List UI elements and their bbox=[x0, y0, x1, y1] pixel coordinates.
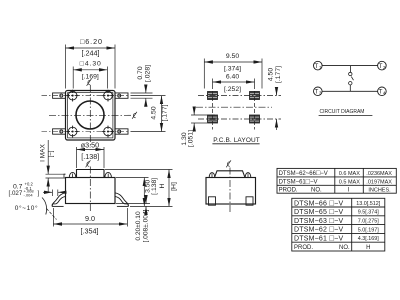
svg-text:-.004: -.004 bbox=[24, 193, 34, 198]
lid tab left bbox=[64, 174, 66, 177]
label 0.7 tol bbox=[13, 182, 33, 191]
dim 4.50 line (top view) bbox=[161, 96, 163, 132]
switch stub bottom bbox=[349, 85, 351, 91]
svg-text:DTSM−66 □−V: DTSM−66 □−V bbox=[294, 198, 343, 207]
svg-text:H: H bbox=[366, 245, 370, 251]
svg-text:PROD.: PROD. bbox=[294, 245, 313, 251]
CIRCUIT DIAGRAM underline bbox=[319, 114, 373, 116]
table2 column line bbox=[351, 198, 353, 251]
pad bottom-left bbox=[208, 115, 218, 123]
svg-text:4.3[.169]: 4.3[.169] bbox=[358, 236, 379, 242]
angle reference line bbox=[47, 209, 57, 220]
svg-text:4.50: 4.50 bbox=[268, 68, 275, 81]
svg-text:0.6 MAX: 0.6 MAX bbox=[339, 171, 360, 177]
svg-text:NO.: NO. bbox=[311, 188, 322, 194]
table1 row lines bbox=[277, 176, 396, 178]
dim 1.30 ext lines bbox=[191, 114, 215, 116]
terminal row centerline top bbox=[42, 95, 130, 97]
terminal T3 bbox=[314, 87, 323, 96]
switch lever bbox=[351, 77, 353, 81]
dim 3.50 line bbox=[77, 149, 105, 151]
svg-text:.0236MAX: .0236MAX bbox=[366, 171, 392, 177]
dim 6.20 line bbox=[66, 47, 116, 49]
wire T1-T2 bbox=[322, 65, 378, 67]
pad top-right bbox=[250, 92, 260, 100]
lead top-left bbox=[53, 93, 66, 98]
seating plane ext line bbox=[130, 205, 173, 207]
side view left ear bbox=[69, 172, 76, 177]
dim 6.40 ext lines bbox=[212, 79, 214, 86]
rivet bottom-right bbox=[102, 126, 114, 138]
right leg bbox=[115, 193, 129, 207]
svg-text:0.70: 0.70 bbox=[137, 66, 144, 79]
svg-text:[.354]: [.354] bbox=[81, 227, 99, 236]
stem circle bbox=[76, 101, 104, 129]
svg-text:[.138]: [.138] bbox=[81, 152, 99, 161]
dim 0.20 arrows bbox=[145, 197, 147, 204]
svg-text:[.138]: [.138] bbox=[151, 178, 158, 195]
dim 4.30 extension lines bbox=[72, 67, 74, 89]
end view left ear bbox=[209, 173, 215, 178]
side view stem bbox=[77, 170, 105, 178]
dim 4.50 extension lines (top view) bbox=[131, 95, 166, 97]
centerline symbol above top view bbox=[87, 79, 92, 86]
svg-text:DTSM−62 □−V: DTSM−62 □−V bbox=[294, 225, 343, 234]
svg-text:I: I bbox=[348, 188, 350, 194]
centerline symbol below [.138] bbox=[86, 160, 91, 167]
side view centerline bbox=[89, 167, 91, 214]
svg-text:□6.20: □6.20 bbox=[80, 37, 102, 46]
P.C.B. LAYOUT underline bbox=[212, 143, 259, 145]
rivet top-left bbox=[67, 90, 79, 102]
label [.027 tol] bbox=[9, 189, 40, 198]
end view right ear bbox=[245, 173, 251, 178]
svg-text:[−]: [−] bbox=[48, 150, 55, 157]
svg-text:DTSM−62~66□−V: DTSM−62~66□−V bbox=[279, 170, 328, 177]
rivet top-right bbox=[102, 90, 114, 102]
table1 border bbox=[277, 168, 396, 193]
svg-text:DTSM−65 □−V: DTSM−65 □−V bbox=[294, 207, 343, 216]
svg-text:[.374]: [.374] bbox=[224, 66, 241, 73]
dim 6.20 extension lines bbox=[65, 45, 67, 89]
dim 0.7 ticks bbox=[51, 190, 53, 197]
svg-text:[H]: [H] bbox=[171, 182, 178, 191]
terminal T1 bbox=[314, 61, 323, 70]
body bottom ext line bbox=[116, 203, 150, 205]
terminal T4 bbox=[378, 87, 387, 96]
terminal row centerline bottom bbox=[42, 131, 130, 133]
dim 4.30 line bbox=[73, 69, 107, 71]
svg-text:I MAX: I MAX bbox=[40, 143, 47, 161]
left leg bbox=[52, 193, 66, 207]
svg-text:9.5[.374]: 9.5[.374] bbox=[358, 210, 379, 216]
svg-text:6.40: 6.40 bbox=[226, 73, 239, 80]
rivet bottom-left bbox=[67, 126, 79, 138]
svg-text:[.051]: [.051] bbox=[188, 130, 195, 147]
svg-text:[.169]: [.169] bbox=[82, 74, 99, 81]
dim 9.50 ext lines bbox=[203, 59, 205, 89]
svg-text:7.0[.275]: 7.0[.275] bbox=[358, 219, 379, 225]
svg-text:[.244]: [.244] bbox=[82, 49, 100, 58]
svg-text:NO.: NO. bbox=[339, 245, 350, 251]
end view body bbox=[206, 178, 256, 205]
centerline symbol right of top view bbox=[132, 112, 137, 119]
dim 0.7 arrows bbox=[43, 191, 52, 193]
lead bottom-right bbox=[115, 129, 128, 134]
svg-text:5.0[.197]: 5.0[.197] bbox=[358, 227, 379, 233]
side view right ear bbox=[105, 172, 112, 177]
svg-text:[.008±.004]: [.008±.004] bbox=[142, 209, 149, 242]
vertical centerline (top view) bbox=[89, 85, 91, 146]
dim 0.70 extension lines bbox=[131, 92, 153, 94]
svg-text:9.50: 9.50 bbox=[226, 53, 239, 60]
lead top-right bbox=[115, 93, 128, 98]
dim 9.0 extension lines bbox=[52, 208, 54, 227]
svg-text:4.50: 4.50 bbox=[150, 106, 157, 119]
terminal T2 bbox=[378, 61, 387, 70]
svg-text:[.252]: [.252] bbox=[224, 86, 241, 93]
svg-text:□4.30: □4.30 bbox=[80, 60, 101, 67]
switch contact top bbox=[349, 72, 352, 75]
dim 0.70 arrows bbox=[145, 86, 147, 94]
side view body bbox=[66, 178, 116, 204]
svg-text:]: ] bbox=[38, 190, 40, 197]
svg-text:[.177]: [.177] bbox=[161, 104, 168, 121]
switch stub top bbox=[350, 66, 352, 73]
svg-text:CIRCUIT DIAGRAM: CIRCUIT DIAGRAM bbox=[320, 109, 365, 115]
lead bottom-left bbox=[53, 129, 66, 134]
dim H line bbox=[168, 170, 170, 207]
dim I MAX arrows bbox=[47, 140, 49, 174]
dim 9.0 line bbox=[53, 223, 127, 225]
svg-text:9.0: 9.0 bbox=[85, 214, 95, 223]
dim 4.50 arrows (pcb) bbox=[276, 88, 278, 96]
svg-text:0.5 MAX: 0.5 MAX bbox=[339, 180, 360, 186]
svg-text:0°~10°: 0°~10° bbox=[15, 204, 38, 212]
dim 3.50 line (body height) bbox=[143, 178, 145, 207]
angle leader arc bbox=[42, 198, 47, 215]
svg-text:DTSM−61□−V: DTSM−61□−V bbox=[279, 179, 318, 186]
table2 border bbox=[292, 198, 385, 251]
wire T3-T4 bbox=[322, 90, 378, 92]
svg-text:.0197MAX: .0197MAX bbox=[366, 180, 392, 186]
end view right foot bbox=[246, 197, 253, 205]
dim 1.30 arrows bbox=[193, 108, 195, 116]
centerline symbol end view bbox=[226, 160, 231, 167]
pcb mid centerline bbox=[196, 106, 272, 108]
dim 3.50 ext (body height) bbox=[116, 177, 149, 179]
switch body outline (top view) bbox=[66, 91, 116, 141]
pcb vertical centerline right col bbox=[254, 85, 256, 130]
table2 row lines bbox=[292, 206, 385, 208]
svg-text:DTSM−61 □−V: DTSM−61 □−V bbox=[294, 234, 343, 243]
end view stem trapezoid bbox=[215, 171, 246, 178]
svg-text:DTSM−63 □−V: DTSM−63 □−V bbox=[294, 216, 343, 225]
switch contact bottom bbox=[349, 82, 352, 85]
pcb row1 centerline bbox=[198, 95, 281, 97]
dim 9.50 line bbox=[204, 61, 262, 63]
end view left foot bbox=[209, 197, 216, 205]
svg-text:[.028]: [.028] bbox=[144, 65, 151, 82]
svg-text:P.C.B. LAYOUT: P.C.B. LAYOUT bbox=[213, 137, 260, 144]
dim 6.40 line bbox=[213, 81, 255, 83]
table1 column lines bbox=[334, 168, 336, 193]
svg-text:INCHES.: INCHES. bbox=[368, 188, 391, 194]
dim H ext bbox=[105, 169, 173, 171]
pad top-left bbox=[208, 92, 218, 100]
svg-text:PROD.: PROD. bbox=[279, 188, 298, 194]
horizontal centerline (top view) bbox=[49, 114, 131, 116]
pad bottom-right bbox=[250, 115, 260, 123]
svg-text:ø3.50: ø3.50 bbox=[81, 140, 99, 149]
pcb row2 centerline bbox=[198, 118, 281, 120]
dim 3.50 extension lines (stem dia) bbox=[76, 147, 78, 168]
dim I MAX ext lines bbox=[46, 173, 66, 175]
pcb vertical centerline left col bbox=[212, 85, 214, 130]
svg-text:H: H bbox=[159, 183, 166, 188]
svg-text:0.20±0.10: 0.20±0.10 bbox=[135, 211, 142, 241]
svg-text:[.177]: [.177] bbox=[275, 66, 282, 83]
svg-text:13.0[.512]: 13.0[.512] bbox=[356, 201, 380, 207]
end view centerline bbox=[229, 168, 231, 213]
svg-text:[.027: [.027 bbox=[9, 190, 23, 197]
